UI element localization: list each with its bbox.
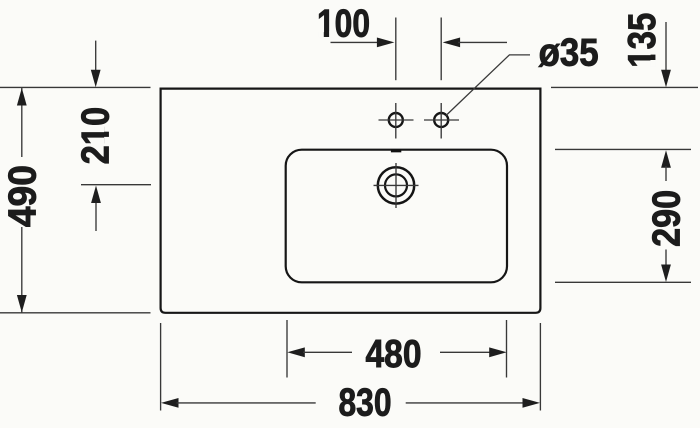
svg-text:490: 490: [1, 165, 44, 227]
dimension 100 arrow left-pointing: [443, 38, 461, 48]
dimension 490 line: [21, 88, 23, 313]
dimension 490 arrow down: [17, 295, 27, 313]
drain crosshair: [374, 163, 419, 208]
dimension 490 arrow up: [17, 88, 27, 106]
dimension 480 arrow left: [287, 347, 305, 357]
dimension 830 arrow left: [161, 398, 179, 408]
tap hole left crosshair: [379, 103, 414, 139]
extension line top-left: [0, 86, 151, 88]
svg-text:210: 210: [75, 107, 118, 165]
extension line 830 right: [539, 323, 541, 411]
tap hole right ø35: [434, 113, 448, 127]
svg-text:480: 480: [366, 333, 422, 376]
dimension 210 arrow top: [95, 41, 97, 71]
svg-text:290: 290: [646, 190, 689, 247]
dimension 100 line left: [331, 41, 380, 43]
dimension 210 arrow bottom: [95, 201, 97, 231]
overflow mark: [391, 149, 401, 152]
svg-text:ø35: ø35: [539, 31, 599, 74]
extension line tap hole left up: [395, 18, 397, 81]
tap hole right crosshair: [424, 103, 459, 139]
extension line basin bottom right: [555, 281, 691, 283]
dimension 480 arrow right: [440, 351, 491, 353]
svg-text:135: 135: [621, 13, 664, 68]
leader line ø35: [446, 55, 530, 116]
inner basin: [286, 150, 507, 283]
dimension 290 arrow down: [665, 250, 667, 267]
dimension 135 arrow down: [661, 70, 671, 88]
extension line tap hole right up: [440, 18, 442, 81]
svg-text:100: 100: [317, 2, 370, 45]
drain inner circle: [385, 174, 407, 196]
extension line 830 left: [160, 323, 162, 411]
dimension 290 arrow up: [661, 150, 671, 168]
extension line basin top right: [555, 148, 691, 150]
dimension 135 line: [665, 22, 667, 70]
extension line drain level left: [81, 184, 151, 186]
dimension 100 arrow right-pointing: [377, 38, 395, 48]
dimension 100 line right: [458, 41, 507, 43]
extension line 480 left: [286, 320, 288, 378]
extension line bottom-left: [0, 312, 151, 314]
tap hole left: [389, 113, 403, 127]
extension line top-right: [551, 86, 698, 88]
drain outer circle: [378, 167, 414, 203]
svg-text:830: 830: [339, 382, 392, 425]
dimension 830 arrow right: [406, 402, 525, 404]
extension line 480 right: [506, 320, 508, 378]
washbasin outer contour: [161, 89, 541, 313]
